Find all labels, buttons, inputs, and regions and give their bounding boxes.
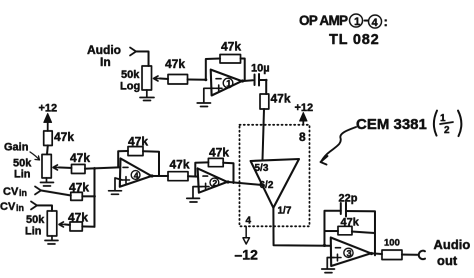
resistor 47k (op-amp 1 feedback)	[206, 39, 245, 80]
wire: op-amp1 output	[242, 79, 253, 82]
power +12 (top-left)	[39, 102, 58, 131]
wire: summing bus	[93, 168, 95, 227]
svg-text:8: 8	[299, 130, 306, 144]
svg-text:5/3: 5/3	[254, 163, 268, 174]
ground (op-amp 3)	[322, 258, 335, 273]
svg-text:CV: CV	[0, 201, 16, 213]
svg-text:6/2: 6/2	[259, 180, 273, 191]
op-amp U3	[331, 238, 371, 267]
svg-text:Lin: Lin	[25, 225, 42, 237]
svg-text:Lin: Lin	[14, 168, 31, 180]
ground (CV2 pot)	[45, 236, 58, 244]
resistor 47k (CV2 to bus)	[65, 210, 95, 231]
svg-text:50k: 50k	[121, 69, 140, 81]
resistor 47k (to VCA pin 5/3)	[260, 92, 291, 161]
resistor 47k (op-amp 4 to op-amp 2)	[151, 157, 197, 180]
label: CEM 3381 (1/2)	[356, 111, 461, 137]
power +12 (VCA pin 8)	[294, 102, 313, 144]
svg-text:47k: 47k	[209, 145, 229, 159]
svg-text:Log: Log	[120, 80, 140, 92]
svg-text:1: 1	[226, 78, 231, 88]
svg-text:10µ: 10µ	[251, 63, 270, 75]
input jack: CVin 2	[0, 201, 37, 213]
svg-text:47k: 47k	[271, 92, 291, 106]
potentiometer 50k Lin (gain)	[4, 141, 59, 180]
svg-text:–12: –12	[234, 246, 258, 262]
ground (audio pot)	[140, 90, 154, 101]
svg-text:3: 3	[347, 248, 352, 258]
svg-text:In: In	[100, 55, 111, 69]
ground (gain pot)	[40, 178, 53, 186]
svg-text:47k: 47k	[221, 39, 241, 53]
ground (op-amp 2)	[187, 187, 202, 202]
capacitor 10u	[251, 63, 270, 95]
resistor 100 (output)	[382, 238, 418, 260]
resistor 47k (gain pot pull-up)	[44, 130, 75, 154]
input jack: CVin 1	[3, 186, 41, 198]
svg-text:50k: 50k	[26, 214, 45, 226]
wire: op-amp 2 output to VCA pin 6/2	[227, 182, 262, 185]
svg-text:1: 1	[440, 113, 446, 124]
ground (op-amp 1)	[197, 88, 214, 106]
svg-text:TL 082: TL 082	[329, 32, 379, 48]
svg-text:+12: +12	[295, 102, 314, 114]
output jack: Audio out	[419, 237, 471, 268]
svg-text:4: 4	[134, 170, 139, 180]
VCA triangle	[251, 159, 299, 217]
wire: op-amp 3 output	[371, 252, 382, 255]
svg-text:in: in	[19, 188, 27, 198]
svg-text:47k: 47k	[54, 130, 74, 144]
svg-text:2: 2	[212, 178, 217, 188]
svg-text:Gain: Gain	[4, 141, 29, 153]
ground (op-amp 4)	[109, 178, 122, 194]
svg-text:out: out	[437, 253, 458, 268]
resistor 47k (op-amp 3 feedback)	[324, 217, 374, 235]
heading: OP AMP 1-4	[299, 13, 388, 29]
wire: audio in to pot	[136, 51, 149, 66]
arrow from CEM label to VCA box	[320, 127, 356, 165]
svg-text:47k: 47k	[70, 151, 90, 165]
wire: VCA output to op-amp 3 input	[273, 208, 330, 246]
svg-text:CEM 3381: CEM 3381	[356, 116, 427, 133]
resistor 47k (audio series)	[160, 57, 206, 84]
svg-text:CV: CV	[3, 186, 19, 198]
svg-text:Audio: Audio	[433, 237, 470, 252]
CEM3381 VCA dashed block	[239, 125, 309, 227]
resistor 47k (op-amp 4 feedback)	[118, 134, 159, 175]
svg-text:4: 4	[372, 17, 379, 29]
svg-text::: :	[384, 14, 388, 29]
resistor 47k (gain to summing bus)	[59, 151, 120, 174]
svg-text:100: 100	[384, 238, 400, 249]
resistor 47k (CV1 to bus)	[41, 180, 95, 200]
op-amp U4	[120, 158, 152, 186]
power -12 (VCA pin 4)	[234, 215, 258, 262]
svg-text:OP AMP: OP AMP	[299, 13, 348, 28]
potentiometer 50k Log	[120, 66, 160, 93]
svg-text:2: 2	[444, 125, 450, 136]
svg-text:47k: 47k	[169, 157, 189, 171]
svg-text:1/7: 1/7	[277, 206, 291, 217]
op-amp U2	[198, 168, 228, 192]
svg-text:4: 4	[245, 216, 251, 227]
resistor 47k (op-amp 2 feedback)	[195, 145, 233, 183]
svg-text:+12: +12	[39, 102, 58, 114]
svg-text:1: 1	[354, 16, 360, 28]
input jack: Audio In	[87, 43, 136, 69]
capacitor 22p (op-amp 3 feedback)	[324, 193, 375, 256]
junction blobs	[93, 78, 373, 255]
svg-text:47k: 47k	[165, 57, 185, 71]
op-amp U1	[211, 70, 242, 96]
potentiometer 50k Lin (CV2)	[25, 205, 65, 237]
svg-text:in: in	[16, 203, 24, 213]
